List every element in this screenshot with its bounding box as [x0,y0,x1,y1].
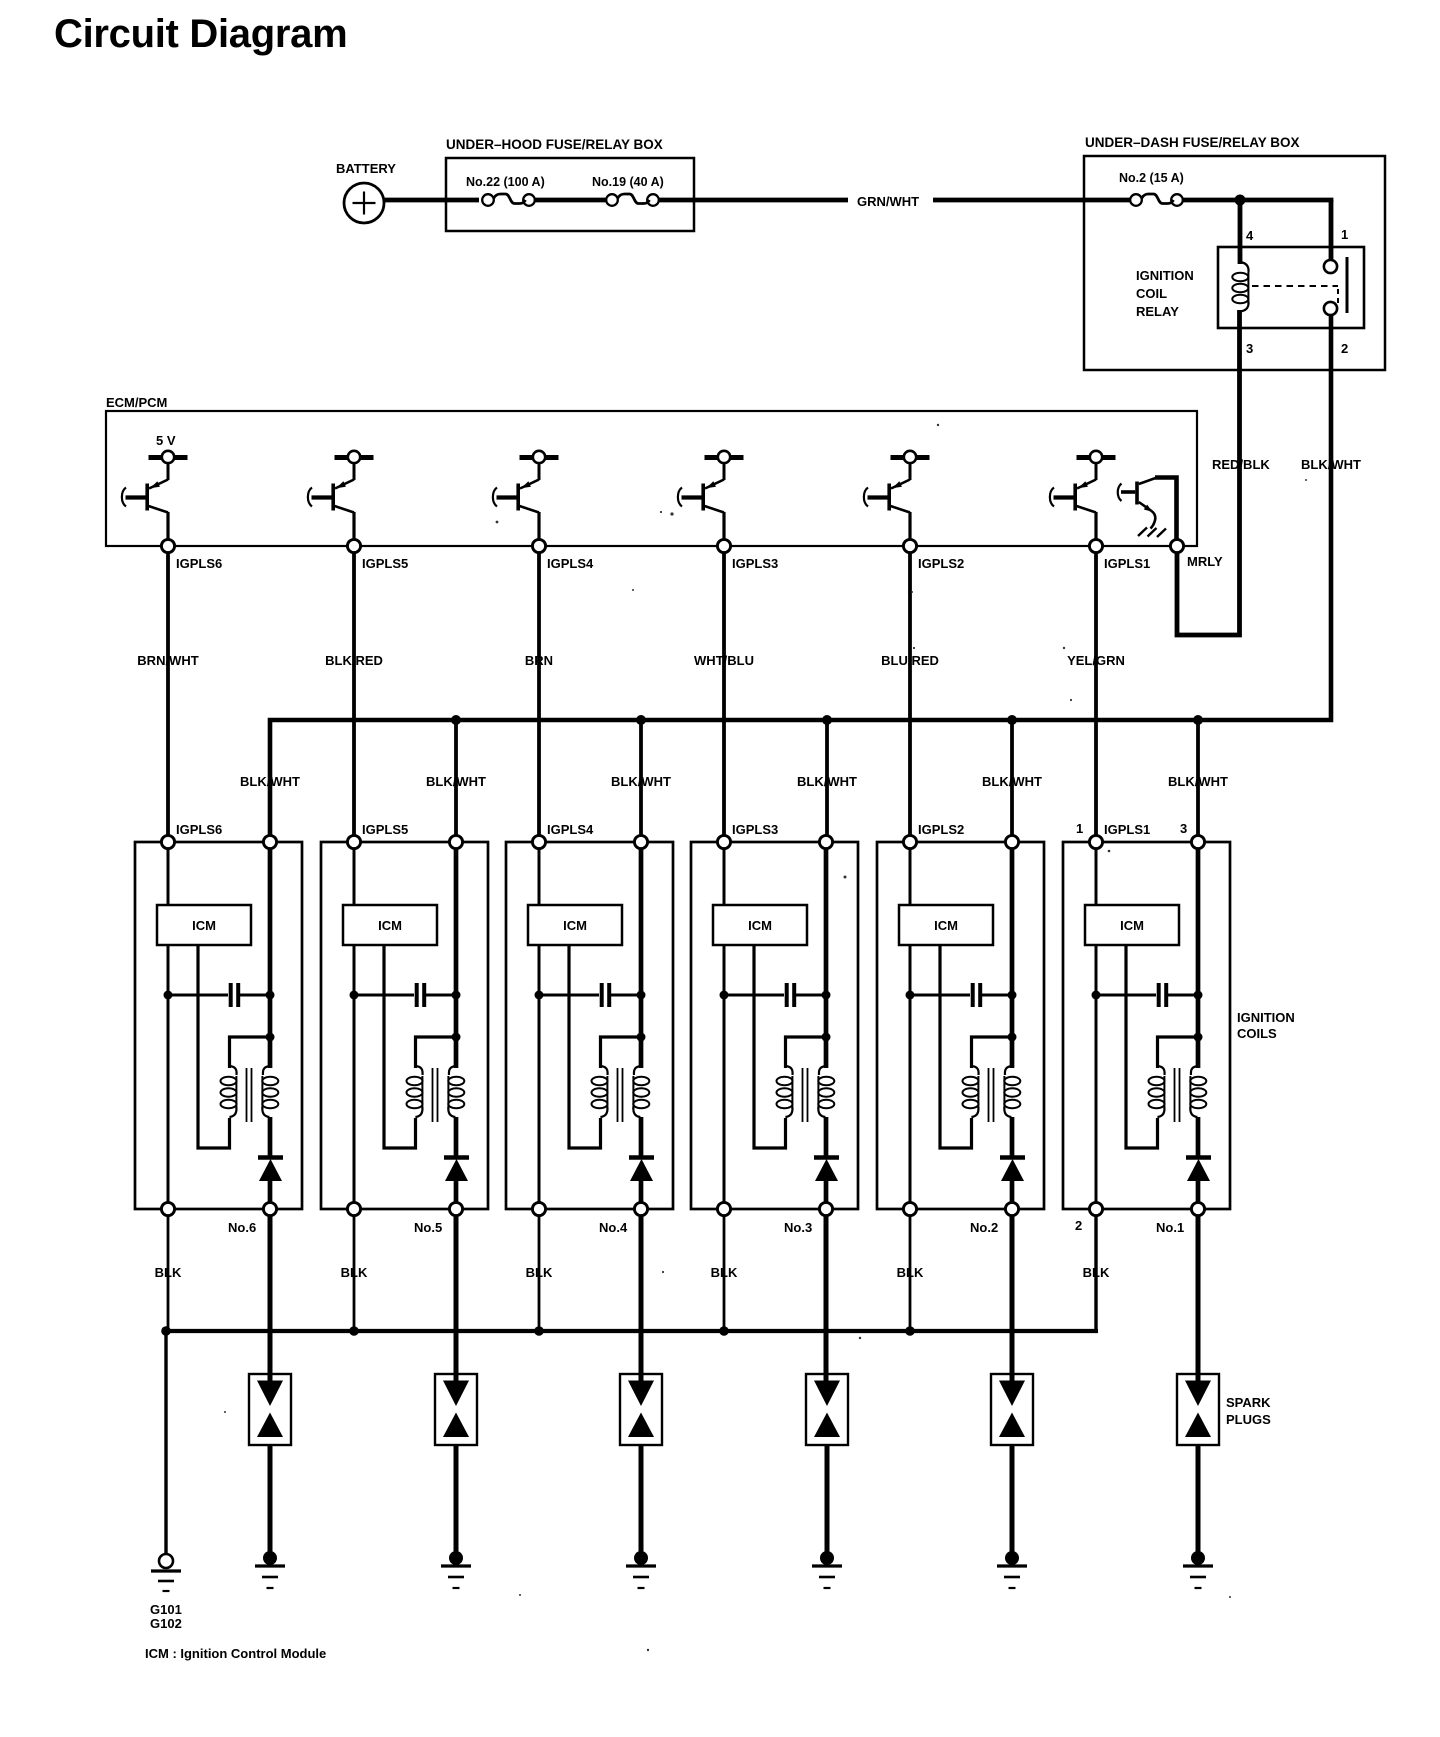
wire BLK/WHT branch [1196,720,1200,836]
wire transformer secondary to diode [1196,1117,1201,1158]
wire GRN/WHT left segment [659,198,848,203]
spark plug P3 [806,1374,848,1445]
svg-text:2: 2 [1075,1218,1082,1233]
wire IGPLS4 from ECM to ignition coil [537,553,541,837]
svg-text:5 V: 5 V [156,433,176,448]
wire ICM to primary winding [754,945,786,1148]
svg-text:IGPLS1: IGPLS1 [1104,556,1150,571]
wire battery to under-hood fuse box [384,198,479,203]
ICM box U2 [899,905,993,945]
junction capacitor right [1008,991,1017,1000]
wire ICM to primary winding [940,945,972,1148]
svg-text:BLU/RED: BLU/RED [881,653,939,668]
coil No.6 box [135,842,302,1209]
wire BLK/WHT branch [825,720,829,836]
svg-text:No.5: No.5 [414,1220,442,1235]
svg-text:IGNITION: IGNITION [1136,268,1194,283]
wire right node down through transformer top [1010,849,1015,1069]
wire spark plug feed No.6 [268,1216,273,1384]
wire diode to bottom node [824,1180,829,1203]
transistor Q2 driver for IGPLS2 [864,451,930,540]
junction on ground bus [161,1326,171,1336]
wire ICM to capacitor junction and bottom node [353,945,356,1203]
junction on ground bus [534,1326,544,1336]
ICM box U4 [528,905,622,945]
wire down to relay pin 1 [1329,200,1334,260]
ignition coil relay box [1218,247,1364,328]
svg-text:IGPLS4: IGPLS4 [547,822,594,837]
svg-text:BLK: BLK [711,1265,738,1280]
wire ICM to capacitor junction and bottom node [909,945,912,1203]
ignition coil block No.4 [506,822,673,1235]
wire node to ICM [1095,849,1098,906]
junction capacitor left [720,991,729,1000]
junction capacitor left [906,991,915,1000]
wire transformer primary top lead [1158,1037,1199,1068]
transformer T2 [963,1066,1021,1122]
wire transformer secondary to diode [454,1117,459,1158]
node IGPLS2 input on coil box [903,835,916,848]
under-dash fuse/relay box [1084,156,1385,370]
transformer T5 [407,1066,465,1122]
svg-text:BLK/WHT: BLK/WHT [982,774,1042,789]
svg-text:IGPLS2: IGPLS2 [918,822,964,837]
wire node to ICM [909,849,912,906]
svg-text:ICM: ICM [1120,918,1144,933]
wire between fuses [535,198,607,203]
relay actuation dashed link vertical [1337,289,1339,304]
diode D3 [814,1158,839,1182]
svg-text:IGPLS5: IGPLS5 [362,556,408,571]
wire node to ICM [353,849,356,906]
svg-text:No.3: No.3 [784,1220,812,1235]
node IGPLS3 on ECM [717,539,730,552]
svg-text:BRN: BRN [525,653,553,668]
wire spark plug P2 to ground [1010,1445,1015,1554]
ignition coils label [1237,1010,1295,1041]
node ground side bottom of coil No.3 [717,1202,730,1215]
junction transformer top [822,1033,831,1042]
node IGPLS1 on ECM [1089,539,1102,552]
svg-text:IGPLS6: IGPLS6 [176,556,222,571]
chassis ground of Q7 [1138,528,1166,538]
node ground side bottom of coil No.1 [1089,1202,1102,1215]
wire right node down through transformer top [1196,849,1201,1069]
svg-text:BLK: BLK [897,1265,924,1280]
ground G101/G102 [151,1554,181,1591]
svg-text:IGPLS5: IGPLS5 [362,822,408,837]
svg-text:BATTERY: BATTERY [336,161,396,176]
junction capacitor right [452,991,461,1000]
wire ICM to capacitor junction and bottom node [167,945,170,1203]
wire BLK from coil No.4 to ground bus [538,1216,541,1332]
coil No.3 box [691,842,858,1209]
wire IGPLS2 from ECM to ignition coil [908,553,912,837]
junction on BLK/WHT bus [1193,715,1203,725]
wire BLK from coil No.5 to ground bus [353,1216,356,1332]
junction capacitor left [1092,991,1101,1000]
node IGPLS2 on ECM [903,539,916,552]
junction capacitor right [1194,991,1203,1000]
fuse No.2 [1130,194,1183,206]
node spark output No.5 [449,1202,462,1215]
ignition coil block No.6 [135,822,302,1235]
node BLK/WHT input on coil box [263,835,276,848]
node BLK/WHT input on coil box [819,835,832,848]
wire ICM to primary winding [384,945,416,1148]
junction on ground bus [905,1326,915,1336]
junction capacitor left [535,991,544,1000]
transistor Q6 driver for IGPLS6 [122,451,188,540]
capacitor C1 [1096,983,1198,1007]
svg-text:IGPLS3: IGPLS3 [732,556,778,571]
svg-text:PLUGS: PLUGS [1226,1412,1271,1427]
junction on BLK/WHT bus [451,715,461,725]
node IGPLS3 input on coil box [717,835,730,848]
wire right node down through transformer top [454,849,459,1069]
wire ICM to capacitor junction and bottom node [1095,945,1098,1203]
relay contact terminal pin 1 [1324,260,1337,273]
wire ICM to primary winding [198,945,230,1148]
junction on ground bus [719,1326,729,1336]
ignition coil block No.2 [877,822,1044,1235]
node BLK/WHT input on coil box [1005,835,1018,848]
capacitor C2 [910,983,1012,1007]
wire diode to bottom node [1196,1180,1201,1203]
wire BLK from coil No.3 to ground bus [723,1216,726,1332]
node BLK/WHT input on coil box [1191,835,1204,848]
svg-text:BLK: BLK [155,1265,182,1280]
ignition coil block No.3 [691,822,858,1235]
wire transformer primary top lead [416,1037,457,1068]
wire diode to bottom node [454,1180,459,1203]
svg-text:4: 4 [1246,228,1254,243]
svg-text:BLK/WHT: BLK/WHT [797,774,857,789]
ignition coil relay label [1136,268,1194,319]
wire down to relay pin 4 / coil [1238,200,1243,264]
svg-text:3: 3 [1180,821,1187,836]
transistor Q7 MRLY driver [1118,478,1177,541]
svg-text:ICM: ICM [378,918,402,933]
transformer T1 [1149,1066,1207,1122]
svg-text:IGPLS6: IGPLS6 [176,822,222,837]
transformer T4 [592,1066,650,1122]
wire BLK/WHT branch [1010,720,1014,836]
node spark output No.1 [1191,1202,1204,1215]
junction on BLK/WHT bus [636,715,646,725]
transformer T6 [221,1066,279,1122]
junction node at relay pin 4 feed [1235,195,1246,206]
node IGPLS6 on ECM [161,539,174,552]
svg-text:WHT/BLU: WHT/BLU [694,653,754,668]
fuse No.19 [606,194,659,206]
wire right node down through transformer top [824,849,829,1069]
wire fuse No.2 to relay pins [1182,198,1333,203]
wire RED/BLK from relay pin 3 to MRLY [1177,310,1240,635]
capacitor C6 [168,983,270,1007]
relay coil [1232,262,1248,312]
svg-text:No.1: No.1 [1156,1220,1184,1235]
diode D4 [629,1158,654,1182]
node IGPLS1 input on coil box [1089,835,1102,848]
svg-text:ICM: ICM [934,918,958,933]
svg-text:BLK/WHT: BLK/WHT [240,774,300,789]
svg-text:ICM : Ignition Control Module: ICM : Ignition Control Module [145,1646,326,1661]
svg-text:1: 1 [1341,227,1348,242]
relay contact blade [1346,257,1349,313]
spark plug P2 [991,1374,1033,1445]
svg-text:G102: G102 [150,1616,182,1631]
wire ICM to capacitor junction and bottom node [538,945,541,1203]
ICM box U1 [1085,905,1179,945]
relay actuation dashed link [1252,285,1338,287]
transistor Q4 driver for IGPLS4 [493,451,559,540]
node IGPLS4 on ECM [532,539,545,552]
junction transformer top [1194,1033,1203,1042]
svg-text:No.6: No.6 [228,1220,256,1235]
ground of spark plug P5 [441,1551,471,1588]
wire spark plug feed No.1 [1196,1216,1201,1384]
junction on BLK/WHT bus [1007,715,1017,725]
diode D5 [444,1158,469,1182]
node spark output No.4 [634,1202,647,1215]
node spark output No.6 [263,1202,276,1215]
capacitor C5 [354,983,456,1007]
wire ICM to capacitor junction and bottom node [723,945,726,1203]
wire BLK/WHT from relay pin 2 down to coil bus [270,316,1331,837]
junction on BLK/WHT bus [822,715,832,725]
node ground side bottom of coil No.6 [161,1202,174,1215]
ground of spark plug P4 [626,1551,656,1588]
wire ICM to primary winding [569,945,601,1148]
node ground side bottom of coil No.2 [903,1202,916,1215]
spark plugs label [1226,1395,1271,1427]
svg-text:No.19 (40 A): No.19 (40 A) [592,175,664,189]
scan specks (noise) [224,424,1307,1651]
wire GRN/WHT right segment [933,198,1131,203]
junction on ground bus [349,1326,359,1336]
node ground side bottom of coil No.4 [532,1202,545,1215]
svg-text:SPARK: SPARK [1226,1395,1271,1410]
relay contact terminal pin 2 [1324,302,1337,315]
svg-text:COIL: COIL [1136,286,1167,301]
node MRLY on ECM [1170,539,1183,552]
wire BLK from coil No.6 to ground bus [167,1216,170,1332]
ICM box U3 [713,905,807,945]
svg-text:ICM: ICM [748,918,772,933]
svg-text:RELAY: RELAY [1136,304,1179,319]
wire diode to bottom node [268,1180,273,1203]
junction transformer top [637,1033,646,1042]
wire right node down through transformer top [639,849,644,1069]
wire transformer primary top lead [601,1037,642,1068]
ground of spark plug P6 [255,1551,285,1588]
wire diode to bottom node [1010,1180,1015,1203]
junction capacitor left [164,991,173,1000]
svg-text:BLK/WHT: BLK/WHT [1168,774,1228,789]
svg-text:No.22 (100 A): No.22 (100 A) [466,175,545,189]
transformer T3 [777,1066,835,1122]
coil No.5 box [321,842,488,1209]
diode D6 [258,1158,283,1182]
transistor Q5 driver for IGPLS5 [308,451,374,540]
coil No.1 box [1063,842,1230,1209]
diode D2 [1000,1158,1025,1182]
svg-text:Circuit Diagram: Circuit Diagram [54,12,347,56]
svg-text:ICM: ICM [192,918,216,933]
wire node to ICM [167,849,170,906]
junction transformer top [266,1033,275,1042]
wire transformer primary top lead [972,1037,1013,1068]
wire spark plug feed No.3 [824,1216,829,1384]
svg-text:BLK/RED: BLK/RED [325,653,383,668]
wire right node down through transformer top [268,849,273,1069]
wire spark plug P5 to ground [454,1445,459,1554]
svg-text:COILS: COILS [1237,1026,1277,1041]
junction capacitor right [822,991,831,1000]
ICM box U6 [157,905,251,945]
svg-text:No.4: No.4 [599,1220,628,1235]
svg-text:GRN/WHT: GRN/WHT [857,194,919,209]
wire node to ICM [538,849,541,906]
svg-text:IGNITION: IGNITION [1237,1010,1295,1025]
node BLK/WHT input on coil box [449,835,462,848]
wire spark plug P1 to ground [1196,1445,1201,1554]
ECM/PCM box [106,411,1197,546]
wire IGPLS1 from ECM to ignition coil [1094,553,1098,837]
wire transformer secondary to diode [1010,1117,1015,1158]
svg-text:G101: G101 [150,1602,182,1617]
svg-text:BLK: BLK [526,1265,553,1280]
wire spark plug P6 to ground [268,1445,273,1554]
ground of spark plug P3 [812,1551,842,1588]
wire IGPLS6 from ECM to ignition coil [166,553,170,837]
svg-text:BLK: BLK [341,1265,368,1280]
ground bus BLK [166,1216,1096,1554]
wire transformer secondary to diode [824,1117,829,1158]
junction capacitor right [637,991,646,1000]
wire BLK/WHT branch [454,720,458,836]
wire transformer secondary to diode [268,1117,273,1158]
junction transformer top [1008,1033,1017,1042]
junction transformer top [452,1033,461,1042]
svg-text:1: 1 [1076,821,1083,836]
capacitor C4 [539,983,641,1007]
wire IGPLS3 from ECM to ignition coil [722,553,726,837]
svg-text:No.2 (15 A): No.2 (15 A) [1119,171,1184,185]
transistor Q3 driver for IGPLS3 [678,451,744,540]
junction capacitor right [266,991,275,1000]
svg-text:MRLY: MRLY [1187,554,1223,569]
svg-text:BLK/WHT: BLK/WHT [426,774,486,789]
junction capacitor left [350,991,359,1000]
spark plug P1 [1177,1374,1219,1445]
svg-text:BLK/WHT: BLK/WHT [611,774,671,789]
node spark output No.2 [1005,1202,1018,1215]
ignition coil block No.5 [321,822,488,1235]
wire transformer primary top lead [230,1037,271,1068]
svg-text:IGPLS4: IGPLS4 [547,556,594,571]
wire transformer secondary to diode [639,1117,644,1158]
svg-text:2: 2 [1341,341,1348,356]
under-hood fuse/relay box [446,158,694,231]
svg-text:3: 3 [1246,341,1253,356]
node BLK/WHT input on coil box [634,835,647,848]
wire spark plug P3 to ground [825,1445,830,1554]
svg-text:ECM/PCM: ECM/PCM [106,395,167,410]
node ground side bottom of coil No.5 [347,1202,360,1215]
svg-text:YEL/GRN: YEL/GRN [1067,653,1125,668]
wire IGPLS5 from ECM to ignition coil [352,553,356,837]
coil No.2 box [877,842,1044,1209]
ignition coil block No.1 [1063,821,1230,1235]
wire BLK/WHT branch [639,720,643,836]
capacitor C3 [724,983,826,1007]
wire BLK from coil No.1 to ground bus [1095,1216,1098,1332]
wire spark plug feed No.2 [1010,1216,1015,1384]
svg-text:UNDER–HOOD FUSE/RELAY BOX: UNDER–HOOD FUSE/RELAY BOX [446,137,663,152]
svg-text:ICM: ICM [563,918,587,933]
ICM box U5 [343,905,437,945]
svg-text:UNDER–DASH FUSE/RELAY BOX: UNDER–DASH FUSE/RELAY BOX [1085,135,1300,150]
node IGPLS4 input on coil box [532,835,545,848]
svg-text:IGPLS3: IGPLS3 [732,822,778,837]
wire BLK from coil No.2 to ground bus [909,1216,912,1332]
wire diode to bottom node [639,1180,644,1203]
ground of spark plug P1 [1183,1551,1213,1588]
wire node to ICM [723,849,726,906]
wire transformer primary top lead [786,1037,827,1068]
spark plug P4 [620,1374,662,1445]
wire spark plug feed No.4 [639,1216,644,1384]
spark plug P6 [249,1374,291,1445]
ground of spark plug P2 [997,1551,1027,1588]
node IGPLS5 on ECM [347,539,360,552]
svg-text:BRN/WHT: BRN/WHT [137,653,198,668]
node IGPLS5 input on coil box [347,835,360,848]
node spark output No.3 [819,1202,832,1215]
coil No.4 box [506,842,673,1209]
fuse No.22 [482,194,535,206]
diode D1 [1186,1158,1211,1182]
wire spark plug feed No.5 [454,1216,459,1384]
transistor Q1 driver for IGPLS1 [1050,451,1116,540]
svg-text:IGPLS1: IGPLS1 [1104,822,1150,837]
battery [344,183,384,223]
svg-text:No.2: No.2 [970,1220,998,1235]
wire spark plug P4 to ground [639,1445,644,1554]
svg-text:IGPLS2: IGPLS2 [918,556,964,571]
node IGPLS6 input on coil box [161,835,174,848]
wire ICM to primary winding [1126,945,1158,1148]
spark plug P5 [435,1374,477,1445]
